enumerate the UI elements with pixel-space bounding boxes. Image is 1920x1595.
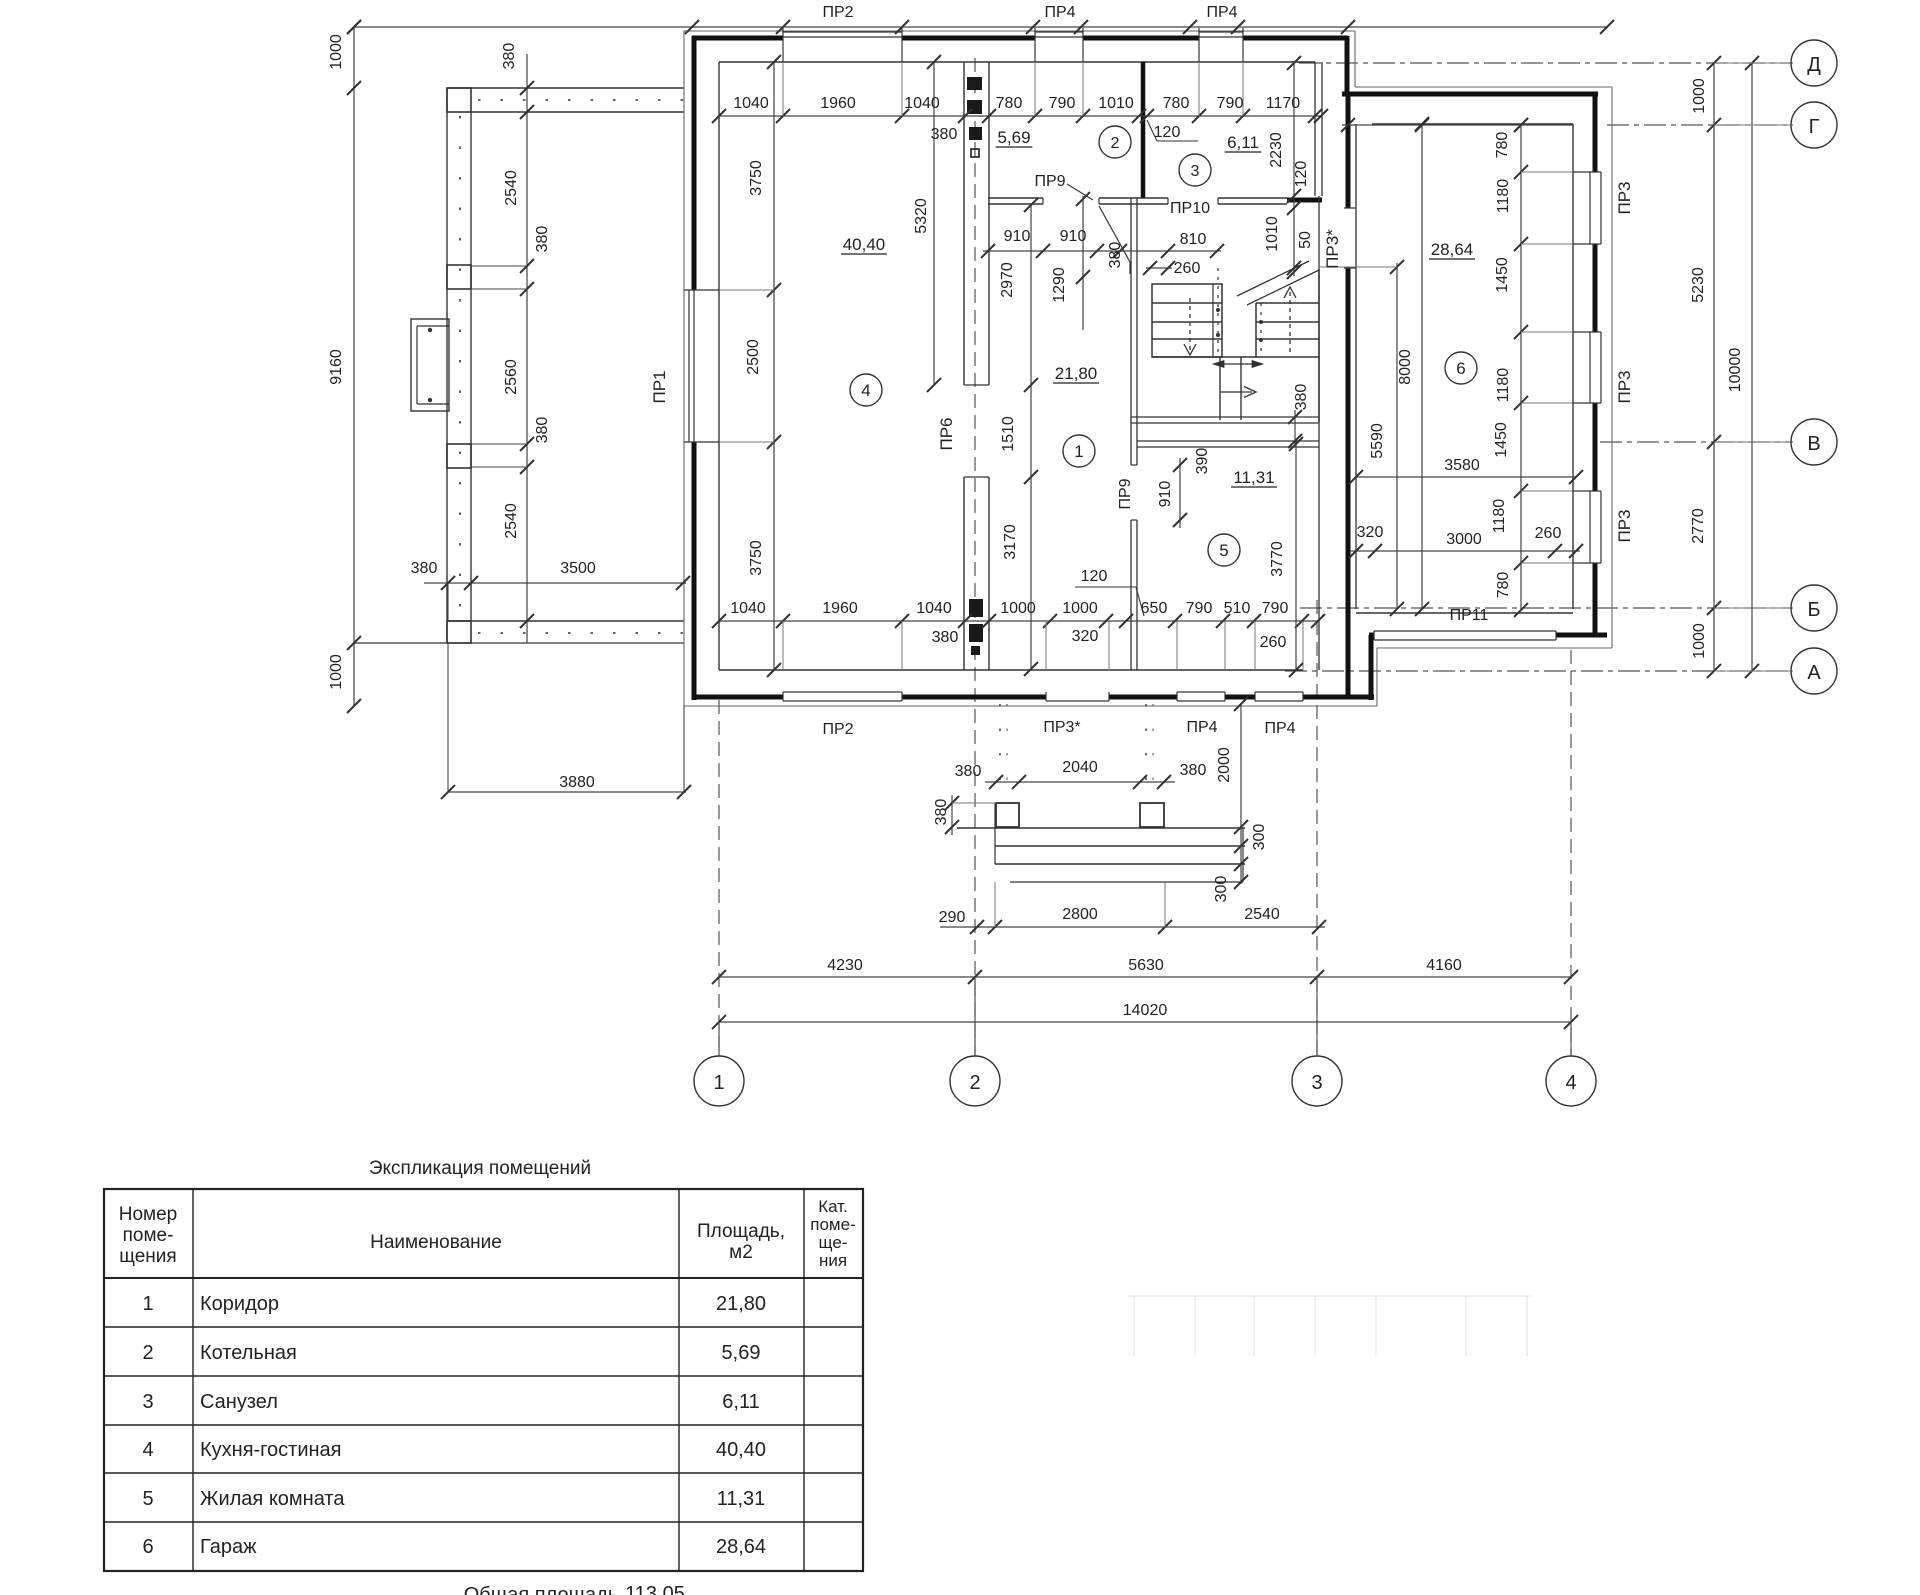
room2-3 divider wall thick xyxy=(1141,62,1146,198)
svg-text:5: 5 xyxy=(142,1488,153,1510)
svg-text:780: 780 xyxy=(1163,95,1190,112)
annex column lower xyxy=(447,444,471,468)
910-910-380-810 dim line xyxy=(983,250,1221,252)
svg-text:790: 790 xyxy=(1186,600,1213,617)
svg-text:3580: 3580 xyxy=(1444,457,1480,474)
chimney blocks bottom xyxy=(969,599,983,617)
svg-text:780: 780 xyxy=(1495,572,1512,599)
svg-text:3880: 3880 xyxy=(559,774,595,791)
svg-text:780: 780 xyxy=(1494,132,1511,159)
svg-text:2970: 2970 xyxy=(999,262,1016,298)
svg-text:4230: 4230 xyxy=(827,957,863,974)
svg-text:390: 390 xyxy=(1194,448,1211,475)
garage gate dims 320-3000-260 xyxy=(1350,550,1580,552)
svg-text:380: 380 xyxy=(1293,384,1310,411)
svg-text:790: 790 xyxy=(1217,95,1244,112)
right axis extension lines xyxy=(1714,62,1793,64)
svg-text:290: 290 xyxy=(939,909,966,926)
svg-text:Г: Г xyxy=(1809,116,1820,138)
garage outer contour thin xyxy=(1354,31,1356,87)
svg-text:113,05: 113,05 xyxy=(625,1583,685,1595)
svg-text:1000: 1000 xyxy=(1000,600,1036,617)
svg-text:ПР3: ПР3 xyxy=(1615,370,1634,403)
svg-text:10000: 10000 xyxy=(1727,348,1744,393)
svg-text:поме-: поме- xyxy=(123,1225,174,1246)
svg-text:1510: 1510 xyxy=(1000,416,1017,452)
svg-text:ния: ния xyxy=(819,1251,847,1270)
svg-text:1000: 1000 xyxy=(1691,78,1708,114)
corridor chain 2970-1510-3170 xyxy=(1030,205,1032,670)
top interior dim chain xyxy=(719,115,1321,117)
svg-text:3500: 3500 xyxy=(560,560,596,577)
axis circle V xyxy=(1791,419,1837,465)
garage top wall inner face xyxy=(1372,123,1573,125)
step wall house-garage bottom xyxy=(1369,635,1374,700)
svg-text:380: 380 xyxy=(534,417,551,444)
faint ghost lines xyxy=(1133,1296,1135,1356)
house right upper corner wall thick xyxy=(1345,36,1350,96)
dividing wall door jambs xyxy=(1344,207,1356,209)
axis B line xyxy=(1300,607,1793,609)
chimney blocks xyxy=(967,77,982,90)
svg-text:1000: 1000 xyxy=(328,34,345,70)
svg-text:510: 510 xyxy=(1224,600,1251,617)
garage right windows xyxy=(1592,172,1599,244)
svg-text:3: 3 xyxy=(1191,163,1200,180)
svg-text:ПР3*: ПР3* xyxy=(1043,719,1080,736)
axis extension to circles xyxy=(718,1022,720,1056)
svg-text:ПР11: ПР11 xyxy=(1450,607,1489,624)
svg-text:3000: 3000 xyxy=(1446,531,1482,548)
svg-text:320: 320 xyxy=(1357,524,1384,541)
door PR6 jambs xyxy=(964,384,989,386)
svg-text:А: А xyxy=(1807,662,1821,684)
house left wall thick xyxy=(692,36,697,700)
svg-text:1010: 1010 xyxy=(1098,95,1134,112)
porch pillar left xyxy=(996,803,1019,827)
svg-text:1: 1 xyxy=(142,1293,153,1315)
svg-text:3170: 3170 xyxy=(1002,524,1019,560)
garage top wall thick xyxy=(1342,92,1598,97)
1010-50 door dim line xyxy=(1293,196,1295,276)
garage top dim line on axis G xyxy=(1342,124,1573,126)
svg-text:2540: 2540 xyxy=(503,170,520,206)
axis A line xyxy=(1285,670,1793,672)
room5 3770 dim xyxy=(1295,441,1297,670)
stair right flight xyxy=(1318,269,1320,422)
svg-text:щения: щения xyxy=(119,1246,176,1267)
svg-text:Котельная: Котельная xyxy=(200,1342,297,1364)
house top wall windows xyxy=(783,34,902,43)
svg-text:3750: 3750 xyxy=(748,540,765,576)
kitchen 5320 dim line xyxy=(933,62,935,385)
svg-text:4: 4 xyxy=(1565,1072,1576,1094)
axis circle 4 xyxy=(1546,1056,1596,1106)
svg-text:260: 260 xyxy=(1174,260,1201,277)
2230 dim line xyxy=(1293,63,1295,196)
svg-text:Номер: Номер xyxy=(119,1204,177,1225)
house bottom window PR2 opening xyxy=(783,694,902,701)
porch 2040 dim xyxy=(985,781,1175,783)
svg-text:380: 380 xyxy=(411,560,438,577)
svg-text:1: 1 xyxy=(713,1072,724,1094)
260 dim line xyxy=(1146,267,1172,269)
garage window chain xyxy=(1520,125,1522,610)
svg-text:3770: 3770 xyxy=(1269,541,1286,577)
svg-text:5,69: 5,69 xyxy=(997,128,1030,147)
svg-text:Санузел: Санузел xyxy=(200,1391,278,1413)
svg-text:120: 120 xyxy=(1154,124,1181,141)
svg-text:3750: 3750 xyxy=(748,160,765,196)
svg-text:2560: 2560 xyxy=(503,359,520,395)
svg-text:11,31: 11,31 xyxy=(717,1488,766,1510)
svg-text:1450: 1450 xyxy=(1493,422,1510,458)
room3 south wall thick part xyxy=(1287,198,1322,203)
svg-text:ПР4: ПР4 xyxy=(1186,719,1217,736)
garage 5590 dim xyxy=(1396,263,1398,609)
svg-text:1180: 1180 xyxy=(1491,499,1508,534)
stair enclosure bottom wall xyxy=(1131,416,1319,418)
stair left flight xyxy=(1152,284,1222,357)
room circle 4 xyxy=(850,374,882,406)
axis circle 2 xyxy=(950,1056,1000,1106)
1290 dim line xyxy=(1082,196,1084,330)
svg-text:6: 6 xyxy=(1456,359,1465,378)
svg-text:780: 780 xyxy=(996,95,1023,112)
svg-text:1040: 1040 xyxy=(733,95,769,112)
svg-text:910: 910 xyxy=(1060,228,1087,245)
svg-text:Кухня-гостиная: Кухня-гостиная xyxy=(200,1439,342,1461)
svg-text:В: В xyxy=(1807,433,1820,455)
room3 right partition 120 xyxy=(1314,62,1316,196)
annex 3880 dim line xyxy=(448,791,686,793)
house left wall window PR1 opening xyxy=(691,290,699,442)
svg-text:Д: Д xyxy=(1807,54,1821,76)
svg-text:5320: 5320 xyxy=(913,198,930,234)
annex column bottom xyxy=(447,621,471,643)
house outer contour thin xyxy=(684,30,1355,32)
svg-text:поме-: поме- xyxy=(810,1215,855,1234)
house inner faces xyxy=(718,62,720,670)
room5 top wall xyxy=(1137,440,1319,442)
bottom axis dim 4230-5630-4160 xyxy=(719,976,1571,978)
svg-text:300: 300 xyxy=(1251,824,1268,851)
svg-text:5630: 5630 xyxy=(1128,957,1164,974)
room5 door 910 dim xyxy=(1179,458,1181,528)
svg-text:910: 910 xyxy=(1157,481,1174,508)
svg-text:1960: 1960 xyxy=(822,600,858,617)
axis2 interior wall upper segment xyxy=(963,62,965,385)
svg-text:1040: 1040 xyxy=(730,600,766,617)
porch bottom dims 290-2800-2540 xyxy=(940,926,1325,928)
svg-text:1960: 1960 xyxy=(820,95,856,112)
svg-text:260: 260 xyxy=(1260,634,1287,651)
axis 2 line xyxy=(974,58,976,1056)
svg-text:5590: 5590 xyxy=(1369,423,1386,459)
axis circle G xyxy=(1791,102,1837,148)
svg-text:1000: 1000 xyxy=(1691,623,1708,659)
corridor-room5 partition upper xyxy=(1130,198,1132,465)
svg-text:1170: 1170 xyxy=(1266,95,1301,112)
svg-text:380: 380 xyxy=(501,43,518,70)
bottom interior dim chain xyxy=(719,620,1319,622)
dividing wall garage side face xyxy=(1355,124,1357,609)
stair up arrow xyxy=(1289,288,1291,352)
svg-text:Кат.: Кат. xyxy=(818,1197,848,1216)
axis circle 3 xyxy=(1292,1056,1342,1106)
garage 8000 dim xyxy=(1421,124,1423,609)
room circle 6 xyxy=(1445,352,1477,384)
garage bottom inner face xyxy=(1356,612,1573,614)
svg-text:ПР4: ПР4 xyxy=(1264,720,1295,737)
garage 3580 dim xyxy=(1356,476,1576,478)
garage bottom wall thick xyxy=(1369,633,1607,638)
room circle 2 xyxy=(1099,126,1131,158)
svg-text:Коридор: Коридор xyxy=(200,1293,279,1315)
axis D line xyxy=(1299,62,1793,64)
stair direction line landing xyxy=(1214,363,1262,365)
svg-text:120: 120 xyxy=(1081,568,1108,585)
svg-text:1010: 1010 xyxy=(1264,216,1281,252)
right outer 10000 dim xyxy=(1751,63,1753,671)
svg-text:ПР2: ПР2 xyxy=(822,721,853,738)
door room5 jambs xyxy=(1131,464,1137,466)
annex bottom dotted line xyxy=(478,632,684,634)
svg-text:2540: 2540 xyxy=(503,503,520,539)
porch pillar guide lines xyxy=(999,704,1001,803)
svg-text:ПР6: ПР6 xyxy=(937,417,956,450)
annex top dotted open side xyxy=(478,99,684,101)
svg-text:1000: 1000 xyxy=(1062,600,1098,617)
svg-text:Общая площадь: Общая площадь xyxy=(464,1584,619,1595)
axis circle A xyxy=(1791,648,1837,694)
annex bottom 380-3500 dim line xyxy=(424,582,686,584)
svg-text:2540: 2540 xyxy=(1244,906,1280,923)
svg-text:5: 5 xyxy=(1219,541,1228,560)
axis circle B xyxy=(1791,585,1837,631)
svg-text:2230: 2230 xyxy=(1268,132,1285,168)
svg-text:260: 260 xyxy=(1535,525,1562,542)
svg-text:6,11: 6,11 xyxy=(722,1391,759,1413)
svg-text:2: 2 xyxy=(142,1342,153,1364)
left outer dim line 9160 xyxy=(353,27,355,706)
svg-text:Наименование: Наименование xyxy=(370,1232,502,1253)
room circle 1 xyxy=(1063,435,1095,467)
stair center stringer xyxy=(1212,284,1214,357)
annex left bay window xyxy=(411,319,449,411)
svg-text:910: 910 xyxy=(1004,228,1031,245)
svg-text:21,80: 21,80 xyxy=(716,1293,766,1315)
svg-text:1290: 1290 xyxy=(1051,267,1068,303)
bottom axis dim 14020 xyxy=(719,1021,1571,1023)
svg-text:ПР9: ПР9 xyxy=(1117,478,1134,509)
svg-text:Б: Б xyxy=(1807,599,1820,621)
room circle 3 xyxy=(1179,154,1211,186)
svg-text:11,31: 11,31 xyxy=(1233,468,1274,487)
svg-text:21,80: 21,80 xyxy=(1055,364,1098,383)
annex left wall xyxy=(446,88,448,643)
annex left dim chain xyxy=(526,54,528,643)
porch 300 dims xyxy=(1234,839,1248,853)
svg-text:6: 6 xyxy=(142,1536,153,1558)
corridor-room5 partition lower xyxy=(1130,520,1132,670)
svg-text:380: 380 xyxy=(931,126,958,143)
svg-text:ще-: ще- xyxy=(819,1233,848,1252)
door jambs PR9 top xyxy=(1042,198,1044,204)
svg-text:2000: 2000 xyxy=(1216,747,1233,783)
annex bottom wall xyxy=(447,620,684,622)
annex left wall dotted centerline xyxy=(459,116,461,618)
svg-text:380: 380 xyxy=(534,226,551,253)
svg-text:380: 380 xyxy=(933,799,950,826)
svg-text:2: 2 xyxy=(1111,135,1120,152)
house entrance door PR3* opening xyxy=(1046,694,1109,701)
svg-text:50: 50 xyxy=(1297,231,1314,249)
svg-text:ПР2: ПР2 xyxy=(822,4,853,21)
svg-text:790: 790 xyxy=(1049,95,1076,112)
svg-text:ПР3: ПР3 xyxy=(1615,509,1634,542)
svg-text:320: 320 xyxy=(1072,628,1099,645)
porch steps xyxy=(957,827,1245,829)
svg-text:Экспликация помещений: Экспликация помещений xyxy=(369,1158,591,1179)
stair 380 dim xyxy=(1294,410,1296,447)
dividing wall house side face xyxy=(1318,196,1320,670)
svg-text:8000: 8000 xyxy=(1397,349,1414,385)
house bottom wall thick xyxy=(692,695,1374,700)
svg-text:14020: 14020 xyxy=(1123,1002,1168,1019)
svg-text:3: 3 xyxy=(1311,1072,1322,1094)
svg-text:380: 380 xyxy=(1180,762,1207,779)
svg-text:м2: м2 xyxy=(729,1242,753,1263)
svg-text:810: 810 xyxy=(1180,231,1207,248)
svg-text:2500: 2500 xyxy=(745,339,762,375)
annex column middle xyxy=(447,265,471,289)
porch 380 left dim xyxy=(951,795,953,835)
svg-text:3: 3 xyxy=(142,1391,153,1413)
svg-text:380: 380 xyxy=(1107,242,1124,269)
svg-text:Гараж: Гараж xyxy=(200,1536,257,1558)
svg-text:ПР3*: ПР3* xyxy=(1323,229,1342,269)
rooms 2-3 south wall xyxy=(988,197,1043,199)
svg-text:650: 650 xyxy=(1141,600,1168,617)
svg-text:380: 380 xyxy=(955,763,982,780)
house-garage dividing wall thick xyxy=(1346,94,1351,208)
svg-text:2770: 2770 xyxy=(1690,508,1707,544)
svg-text:40,40: 40,40 xyxy=(716,1439,766,1461)
door PR9 leaf xyxy=(1099,206,1130,262)
svg-text:4: 4 xyxy=(142,1439,153,1461)
svg-text:9160: 9160 xyxy=(328,349,345,385)
svg-text:Жилая комната: Жилая комната xyxy=(200,1488,345,1510)
axis2 interior wall lower segment xyxy=(963,477,965,670)
svg-text:790: 790 xyxy=(1262,600,1289,617)
axis circle 1 xyxy=(694,1056,744,1106)
svg-text:28,64: 28,64 xyxy=(1431,240,1474,259)
top dimension line xyxy=(354,26,1607,28)
house top wall thick xyxy=(692,36,1348,41)
svg-text:120: 120 xyxy=(1293,161,1310,188)
svg-text:1180: 1180 xyxy=(1495,368,1512,403)
svg-text:1040: 1040 xyxy=(904,95,940,112)
svg-text:1180: 1180 xyxy=(1495,179,1512,214)
svg-text:2040: 2040 xyxy=(1062,759,1098,776)
right outer dim chain 1000-5230-2770-1000 xyxy=(1713,63,1715,671)
garage right wall inner face xyxy=(1572,124,1574,609)
stair direction line lower xyxy=(1220,391,1252,393)
porch pillar right xyxy=(1140,803,1164,827)
axis G line xyxy=(1607,124,1793,126)
svg-text:ПР4: ПР4 xyxy=(1044,4,1075,21)
stair left flight down arrow xyxy=(1189,298,1191,352)
garage right wall thick xyxy=(1593,92,1598,637)
axis 4 line xyxy=(1570,650,1572,1056)
annex top wall xyxy=(447,87,684,89)
stair right flight diagonal break xyxy=(1247,270,1319,305)
annex corner column top xyxy=(447,88,471,112)
svg-text:1450: 1450 xyxy=(1494,257,1511,293)
svg-text:2: 2 xyxy=(969,1072,980,1094)
axis circle D xyxy=(1791,40,1837,86)
svg-text:380: 380 xyxy=(932,629,959,646)
porch 2000 dim xyxy=(1240,704,1242,884)
svg-text:1040: 1040 xyxy=(916,600,952,617)
room circle 5 xyxy=(1208,534,1240,566)
left interior dim chain 3750-2500-3750 xyxy=(773,62,775,670)
svg-text:5230: 5230 xyxy=(1690,267,1707,303)
axis 1 line xyxy=(718,700,720,1056)
svg-text:1: 1 xyxy=(1074,442,1083,461)
axis V line xyxy=(1600,441,1793,443)
svg-text:5,69: 5,69 xyxy=(722,1342,761,1364)
svg-text:4: 4 xyxy=(861,381,870,400)
svg-text:ПР10: ПР10 xyxy=(1170,200,1210,217)
svg-text:Площадь,: Площадь, xyxy=(697,1221,785,1242)
svg-text:28,64: 28,64 xyxy=(716,1536,766,1558)
svg-text:4160: 4160 xyxy=(1426,957,1462,974)
svg-text:ПР9: ПР9 xyxy=(1034,173,1065,190)
svg-text:ПР1: ПР1 xyxy=(650,370,669,403)
axis 3 line xyxy=(1316,600,1318,1056)
svg-text:1000: 1000 xyxy=(328,654,345,690)
stair lower well xyxy=(1219,357,1221,420)
svg-text:300: 300 xyxy=(1213,876,1230,903)
svg-text:ПР4: ПР4 xyxy=(1206,4,1237,21)
svg-text:2800: 2800 xyxy=(1062,906,1098,923)
svg-text:40,40: 40,40 xyxy=(843,235,886,254)
svg-text:6,11: 6,11 xyxy=(1227,133,1259,152)
svg-text:ПР3: ПР3 xyxy=(1615,181,1634,214)
table frame xyxy=(104,1189,863,1571)
garage gate opening xyxy=(1374,632,1556,639)
